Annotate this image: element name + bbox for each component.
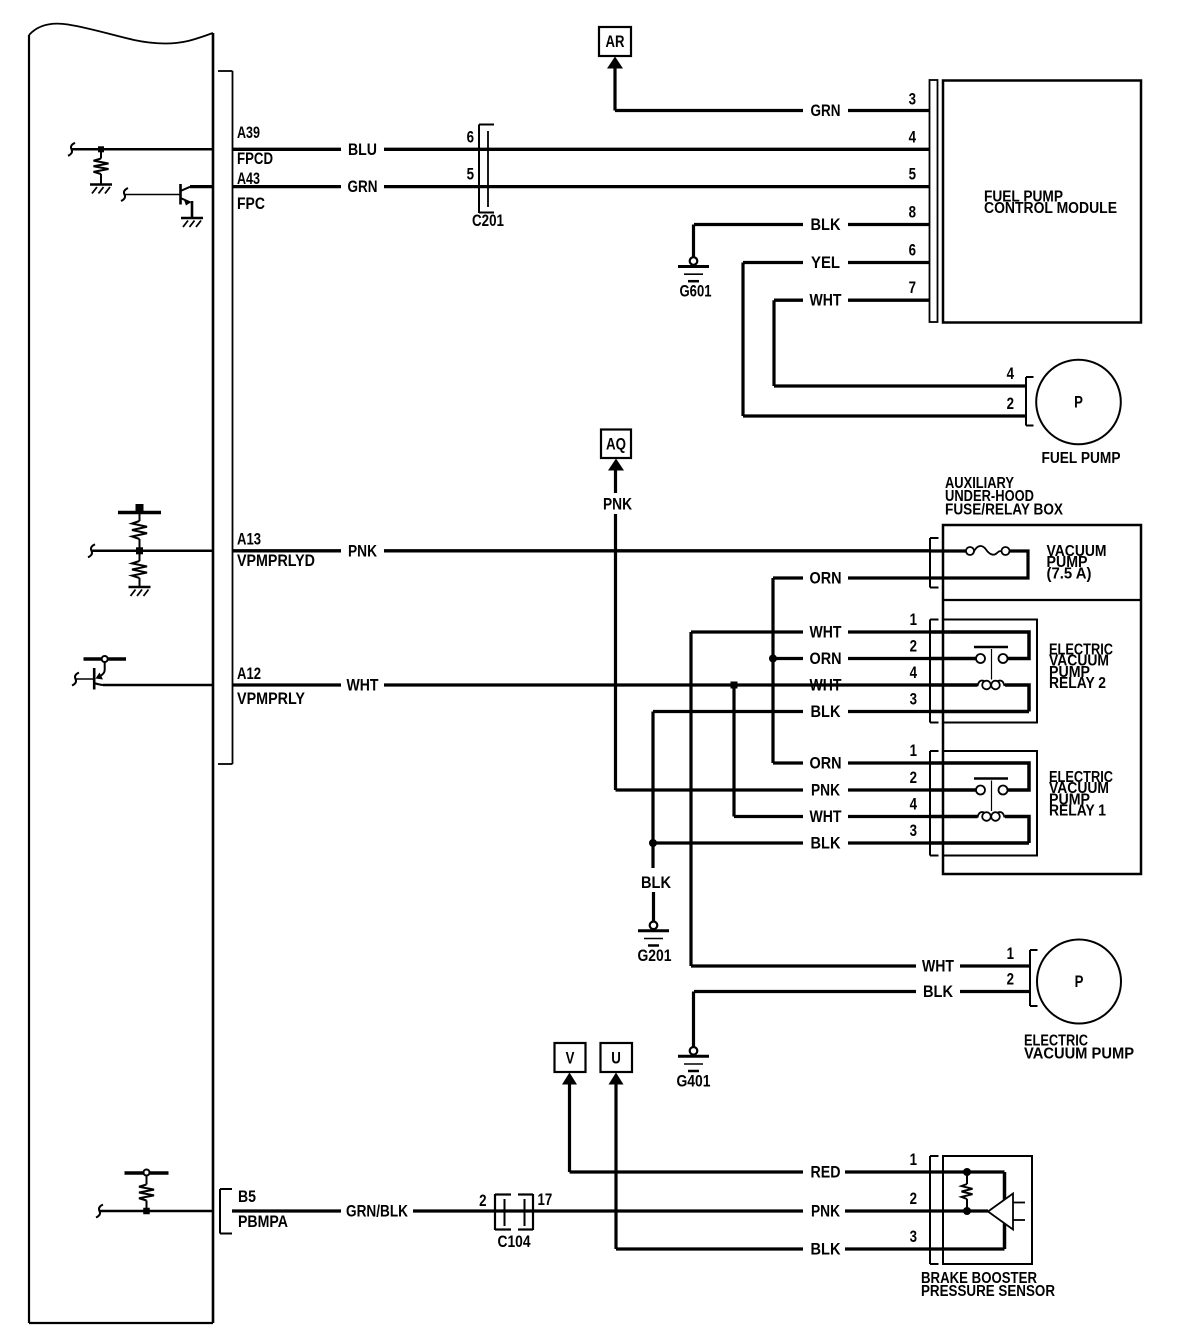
svg-text:GRN: GRN bbox=[348, 177, 378, 196]
svg-text:RELAY 2: RELAY 2 bbox=[1049, 675, 1106, 692]
svg-text:A12: A12 bbox=[237, 664, 261, 683]
svg-text:2: 2 bbox=[910, 1189, 917, 1208]
svg-text:WHT: WHT bbox=[810, 291, 842, 310]
C201 cavity numbers 6 and 5 bbox=[467, 127, 474, 183]
relay 1 name label bbox=[1049, 769, 1113, 820]
wire color label BLK (relay 1 pin 3) bbox=[811, 834, 842, 853]
pull-up resistor in PCM on PBMPA line bbox=[139, 1175, 154, 1211]
svg-text:A39: A39 bbox=[237, 123, 260, 142]
fuel pump motor symbol P bbox=[1036, 360, 1121, 445]
electric vacuum pump relay 1 connector bracket bbox=[930, 751, 939, 856]
wire color label PNK bbox=[348, 541, 378, 560]
svg-text:4: 4 bbox=[1007, 364, 1015, 383]
svg-text:4: 4 bbox=[909, 127, 917, 146]
svg-text:P: P bbox=[1075, 972, 1084, 991]
relay 2 pin numbers bbox=[910, 610, 918, 709]
arrow into AQ box bbox=[608, 459, 624, 791]
svg-text:BLK: BLK bbox=[811, 702, 842, 721]
pull-down resistor in PCM on FPCD line bbox=[94, 152, 109, 184]
svg-text:C201: C201 bbox=[472, 211, 504, 230]
off-page reference box AR bbox=[599, 27, 631, 56]
in-line connector C104 bbox=[495, 1194, 533, 1230]
relay 2 pin 2 internal wire bbox=[930, 657, 976, 661]
resistor lower in PCM on VPMPRLYD line bbox=[132, 551, 147, 586]
svg-text:BLK: BLK bbox=[811, 1240, 842, 1259]
wire FPCD inside PCM with continuation slash bbox=[68, 143, 213, 156]
svg-text:G401: G401 bbox=[677, 1072, 711, 1091]
wire WHT fuel pump control module pin 7 to fuel pump pin 4 bbox=[774, 300, 1026, 386]
svg-text:(7.5 A): (7.5 A) bbox=[1047, 565, 1092, 582]
node junction on WHT wire at relay 1 branch bbox=[731, 682, 738, 817]
relay 1 contact bbox=[974, 779, 1008, 812]
wire color label ORN (fuse output) bbox=[810, 569, 842, 588]
svg-text:3: 3 bbox=[910, 690, 917, 709]
svg-text:8: 8 bbox=[909, 203, 916, 222]
wire WHT to electric vacuum pump pin 1 bbox=[691, 964, 1030, 967]
arrow into AR box bbox=[607, 57, 623, 111]
connector name C104 bbox=[498, 1232, 531, 1251]
relay 1 coil bbox=[930, 812, 1029, 843]
wire color label ORN (relay 1 pin 1) bbox=[810, 754, 842, 773]
svg-text:RELAY 1: RELAY 1 bbox=[1049, 803, 1106, 820]
svg-text:G601: G601 bbox=[680, 282, 712, 301]
node junction on FPCD wire bbox=[98, 146, 104, 152]
svg-text:6: 6 bbox=[909, 241, 916, 260]
wire color label GRN/BLK bbox=[346, 1202, 409, 1221]
pin label A43 / net name FPC bbox=[237, 169, 265, 213]
svg-text:17: 17 bbox=[538, 1190, 553, 1209]
driver transistor Q1 in PCM on FPC line bbox=[121, 184, 192, 217]
module pin numbers 3 4 5 8 6 7 bbox=[909, 90, 917, 298]
electric vacuum pump name label bbox=[1024, 1033, 1134, 1063]
wire RED from V to brake booster pressure sensor pin 1 bbox=[570, 1170, 1005, 1173]
off-page reference box U bbox=[601, 1043, 633, 1072]
wire color label ORN (relay 2 pin 2) bbox=[810, 649, 842, 668]
wire YEL fuel pump control module pin 6 to fuel pump pin 2 bbox=[743, 263, 1026, 417]
wire color label WHT (pin 7) bbox=[810, 291, 842, 310]
sensor amplifier triangle bbox=[988, 1194, 1025, 1230]
wire color label BLK (relay 2 pin 3) bbox=[811, 702, 842, 721]
brake booster pressure sensor pin numbers bbox=[910, 1150, 917, 1246]
svg-text:3: 3 bbox=[910, 821, 917, 840]
pin label A13 / net name VPMPRLYD bbox=[237, 530, 315, 571]
wire color label YEL (pin 6) bbox=[811, 253, 840, 272]
ground G601 bbox=[678, 257, 712, 301]
vacuum pump fuse connector bracket bbox=[930, 538, 939, 588]
wire color label BLK on G201 drop bbox=[641, 873, 672, 892]
svg-text:WHT: WHT bbox=[810, 676, 842, 695]
relay 2 contact bbox=[974, 647, 1008, 680]
pin label A39 / net name FPCD bbox=[237, 123, 273, 168]
relay 2 coil bbox=[930, 681, 1029, 712]
svg-text:V: V bbox=[566, 1049, 575, 1068]
driver transistor Q2 in PCM on VPMPRLY line with supply circle bbox=[72, 656, 126, 690]
wire color label GRN bbox=[348, 177, 378, 196]
svg-text:ORN: ORN bbox=[810, 649, 842, 668]
fuel pump connector bracket bbox=[1026, 377, 1034, 426]
svg-text:1: 1 bbox=[910, 610, 917, 629]
svg-text:BLK: BLK bbox=[923, 982, 954, 1001]
wire PNK from PCM pin A13 to vacuum pump fuse bbox=[233, 549, 930, 552]
wire WHT from PCM pin A12 to vacuum pump relay pins 4 bbox=[103, 684, 930, 687]
electric vacuum pump connector bracket bbox=[1030, 950, 1038, 1006]
wire ORN from fuse to relay 2 pin 2 and relay 1 pin 1 bbox=[773, 578, 930, 763]
fuel pump name label bbox=[1042, 450, 1121, 467]
wire BLK from relay 2 pin 3 to ground G201 bbox=[653, 712, 930, 922]
svg-text:3: 3 bbox=[910, 1227, 917, 1246]
B+ bar over A13 divider bbox=[118, 504, 161, 513]
wire color label WHT (relay 2 pin 1) bbox=[810, 623, 842, 642]
wire WHT from relay 2 pin 1 to electric vacuum pump pin 1 bbox=[691, 632, 930, 966]
svg-text:C104: C104 bbox=[498, 1232, 531, 1251]
svg-text:4: 4 bbox=[910, 663, 918, 682]
PCM connector bracket B5 bbox=[220, 1189, 232, 1234]
in-line connector C201 bbox=[479, 125, 494, 214]
wire color label BLU bbox=[348, 140, 377, 159]
svg-text:GRN: GRN bbox=[811, 101, 841, 120]
ground (chassis) under FPCD resistor bbox=[90, 185, 112, 194]
svg-text:2: 2 bbox=[1007, 970, 1014, 989]
svg-text:2: 2 bbox=[910, 768, 917, 787]
sensor internal return wire bbox=[1003, 1224, 1007, 1250]
svg-text:PNK: PNK bbox=[811, 781, 841, 800]
wire color label GRN (pin 3) bbox=[811, 101, 841, 120]
node junction on PBMPA wire bbox=[143, 1208, 150, 1215]
wire GRN from PCM pin A43 to fuel pump control module pin 5 bbox=[190, 185, 929, 188]
arrow into U box bbox=[609, 1073, 624, 1250]
wire color label RED bbox=[811, 1163, 841, 1182]
svg-text:RED: RED bbox=[811, 1163, 841, 1182]
wire ORN relay 2 pin 2 bbox=[773, 657, 930, 660]
wire BLU from PCM pin A39 to fuel pump control module pin 4 bbox=[233, 148, 929, 151]
electric vacuum pump relay 2 connector bracket bbox=[930, 620, 939, 723]
pin label B5 / net name PBMPA bbox=[238, 1187, 288, 1231]
wire GRN from AR to fuel pump control module pin 3 bbox=[615, 109, 929, 112]
wire color label BLK (pin 8) bbox=[811, 215, 842, 234]
wire color label WHT bbox=[347, 676, 379, 695]
svg-text:BLK: BLK bbox=[811, 215, 842, 234]
sensor internal supply wire bbox=[963, 1168, 1005, 1200]
svg-text:ORN: ORN bbox=[810, 569, 842, 588]
svg-text:P: P bbox=[1074, 393, 1083, 412]
wire BLK relay 1 pin 3 bbox=[653, 841, 930, 844]
svg-text:PNK: PNK bbox=[348, 541, 378, 560]
svg-text:5: 5 bbox=[467, 165, 474, 184]
brake booster pressure sensor box bbox=[943, 1156, 1032, 1264]
svg-text:AR: AR bbox=[606, 32, 625, 51]
wire BLK from electric vacuum pump pin 2 to ground G401 bbox=[694, 992, 1031, 1048]
arrow into V box bbox=[562, 1073, 577, 1173]
wire color label PNK on AQ riser bbox=[603, 495, 633, 514]
off-page reference box V bbox=[555, 1043, 586, 1072]
electric vacuum pump relay 1 box bbox=[943, 751, 1037, 856]
svg-text:CONTROL MODULE: CONTROL MODULE bbox=[984, 200, 1117, 217]
svg-text:PRESSURE SENSOR: PRESSURE SENSOR bbox=[921, 1283, 1055, 1300]
node junction ORN at relay 2 pin 2 bbox=[769, 655, 777, 663]
wire VPMPRLYD inside PCM with continuation slash bbox=[88, 544, 213, 557]
fuel pump control module box bbox=[943, 81, 1141, 323]
B+ bar over B5 pull-up bbox=[125, 1170, 169, 1176]
wire color label WHT (relay pins 4) bbox=[810, 676, 842, 695]
wire GRN/BLK from PCM pin B5 through C104 bbox=[232, 1209, 988, 1212]
svg-text:AQ: AQ bbox=[606, 435, 626, 454]
svg-text:BLK: BLK bbox=[641, 873, 672, 892]
off-page reference box AQ bbox=[601, 430, 631, 459]
fuse name label bbox=[1047, 543, 1107, 582]
PCM connector strip bbox=[218, 71, 233, 764]
fuel pump control module name bbox=[984, 189, 1117, 218]
svg-text:VACUUM PUMP: VACUUM PUMP bbox=[1024, 1046, 1134, 1063]
svg-text:2: 2 bbox=[1007, 394, 1014, 413]
wire PBMPA inside PCM with continuation slash bbox=[96, 1205, 213, 1218]
fuel pump pin numbers 4 and 2 bbox=[1007, 364, 1015, 413]
vacuum pump fuse 7.5A element bbox=[930, 546, 1028, 578]
svg-text:BLU: BLU bbox=[348, 140, 377, 159]
svg-text:G201: G201 bbox=[638, 946, 672, 965]
svg-text:PNK: PNK bbox=[811, 1202, 841, 1221]
wire PNK from AQ to relay 1 pin 2 bbox=[616, 788, 931, 791]
svg-text:1: 1 bbox=[1007, 944, 1014, 963]
relay 2 pin 1 internal wire bbox=[930, 632, 1029, 659]
relay 1 pin 3 internal wire bbox=[930, 841, 1029, 845]
wire color label PNK (sensor pin 2) bbox=[811, 1202, 841, 1221]
wire color label WHT (relay 1 pin 4) bbox=[810, 807, 842, 826]
pin label A12 / net name VPMPRLY bbox=[237, 664, 306, 708]
auxiliary under-hood fuse/relay box outline bbox=[943, 525, 1141, 874]
wire color label PNK (relay 1 pin 2) bbox=[811, 781, 841, 800]
relay 1 pin numbers bbox=[910, 741, 918, 840]
svg-text:2: 2 bbox=[910, 637, 917, 656]
relay 2 name label bbox=[1049, 642, 1113, 693]
svg-text:FUEL PUMP: FUEL PUMP bbox=[1042, 450, 1121, 467]
svg-text:WHT: WHT bbox=[810, 807, 842, 826]
brake booster pressure sensor name label bbox=[921, 1270, 1055, 1300]
ground G201 bbox=[638, 922, 672, 966]
ground (chassis) under VPMPRLYD divider bbox=[129, 587, 151, 596]
svg-text:U: U bbox=[611, 1049, 621, 1068]
relay 2 pin 3 internal wire bbox=[930, 710, 1029, 714]
C104 cavity numbers 2 and 17 bbox=[479, 1190, 552, 1210]
svg-text:ORN: ORN bbox=[810, 754, 842, 773]
svg-text:BLK: BLK bbox=[811, 834, 842, 853]
svg-text:YEL: YEL bbox=[811, 253, 840, 272]
svg-text:FUSE/RELAY BOX: FUSE/RELAY BOX bbox=[945, 501, 1064, 518]
ground G401 bbox=[677, 1047, 711, 1091]
auxiliary under-hood fuse/relay box name bbox=[945, 475, 1064, 518]
electric vacuum pump motor symbol P bbox=[1037, 940, 1121, 1024]
relay 1 pin 2 internal wire bbox=[930, 788, 976, 792]
svg-text:FPC: FPC bbox=[237, 194, 265, 213]
node junction BLK at relay 1 pin 3 bbox=[649, 839, 657, 847]
svg-text:VPMPRLY: VPMPRLY bbox=[237, 689, 306, 708]
resistor upper in PCM on VPMPRLYD line bbox=[132, 512, 147, 551]
electric vacuum pump relay 2 box bbox=[943, 620, 1037, 723]
relay 1 pin 1 internal wire bbox=[930, 763, 1029, 790]
wire BLK fuel pump control module pin 8 to ground G601 bbox=[694, 225, 930, 258]
svg-text:5: 5 bbox=[909, 165, 916, 184]
svg-text:WHT: WHT bbox=[922, 957, 954, 976]
engine control module (PCM) box outline with torn wavy top bbox=[29, 24, 213, 1323]
svg-text:B5: B5 bbox=[238, 1187, 256, 1206]
svg-text:GRN/BLK: GRN/BLK bbox=[346, 1202, 409, 1221]
svg-text:3: 3 bbox=[909, 90, 916, 109]
svg-text:VPMPRLYD: VPMPRLYD bbox=[237, 551, 315, 570]
svg-text:PBMPA: PBMPA bbox=[238, 1212, 288, 1231]
wire WHT relay 1 pin 4 bbox=[734, 815, 930, 818]
svg-text:7: 7 bbox=[909, 278, 916, 297]
svg-text:2: 2 bbox=[479, 1191, 486, 1210]
wire color label WHT (pump pin 1) bbox=[922, 957, 954, 976]
fuel pump control module connector strip bbox=[930, 80, 938, 322]
svg-text:PNK: PNK bbox=[603, 495, 633, 514]
ground (chassis) under transistor Q1 emitter bbox=[181, 218, 203, 227]
svg-text:FPCD: FPCD bbox=[237, 149, 273, 168]
svg-text:WHT: WHT bbox=[810, 623, 842, 642]
svg-text:A13: A13 bbox=[237, 530, 261, 549]
wire color label BLK (pump pin 2) bbox=[923, 982, 954, 1001]
connector name C201 bbox=[472, 211, 504, 230]
electric vacuum pump pin numbers bbox=[1007, 944, 1014, 989]
brake booster pressure sensor connector bracket bbox=[930, 1156, 939, 1264]
node junction on VPMPRLYD wire bbox=[136, 547, 143, 554]
wire ORN relay 1 pin 1 bbox=[773, 761, 930, 764]
svg-text:1: 1 bbox=[910, 741, 917, 760]
wire color label BLK (sensor pin 3) bbox=[811, 1240, 842, 1259]
sensor internal resistor bbox=[962, 1174, 973, 1215]
svg-text:6: 6 bbox=[467, 127, 474, 146]
wire BLK from U to brake booster pressure sensor pin 3 bbox=[616, 1247, 1005, 1250]
svg-text:4: 4 bbox=[910, 795, 918, 814]
svg-text:WHT: WHT bbox=[347, 676, 379, 695]
svg-text:1: 1 bbox=[910, 1150, 917, 1169]
